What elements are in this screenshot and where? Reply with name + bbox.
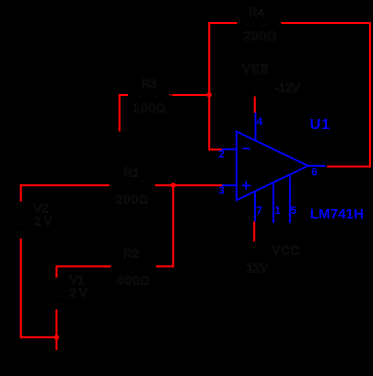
- svg-text:200Ω: 200Ω: [116, 193, 149, 207]
- pin 1 stub: [272, 183, 274, 223]
- svg-text:R3: R3: [141, 77, 157, 91]
- wire: bottom row V2 to V1 junction: [20, 336, 57, 338]
- wire: R2 left lead to V1 top: [57, 266, 112, 277]
- wire: pin3 node riser down to R2 right lead: [156, 185, 173, 266]
- resistor R1 body: [111, 180, 153, 189]
- source V2 body (battery symbol, invisible): [10, 202, 31, 239]
- svg-text:200Ω: 200Ω: [244, 29, 277, 43]
- wire: V2 top lead vertical: [20, 184, 22, 201]
- svg-text:12V: 12V: [247, 261, 268, 275]
- ground under R3: [110, 132, 129, 149]
- pin 2 stub: [222, 148, 237, 150]
- op-amp U1 LM741H: [222, 113, 326, 224]
- svg-text:V1: V1: [70, 273, 85, 287]
- wire: V2 bottom lead down to bottom row: [20, 239, 22, 338]
- svg-text:R4: R4: [249, 5, 265, 19]
- svg-text:400Ω: 400Ω: [117, 273, 150, 287]
- resistor R2 body: [112, 261, 154, 270]
- wire: V1 bottom lead down through junction to ground: [56, 309, 58, 350]
- wire: VCC supply from pin7: [253, 222, 255, 242]
- pin 4 stub: [255, 113, 257, 141]
- wire: R1 row from V2 top corner to R1 left terminal: [21, 184, 110, 186]
- svg-text:6: 6: [311, 167, 317, 179]
- svg-text:R1: R1: [124, 166, 140, 180]
- svg-text:5: 5: [291, 205, 297, 217]
- svg-text:4: 4: [257, 116, 264, 128]
- op-amp triangle body: [237, 132, 309, 201]
- node: pin2 junction dot: [207, 92, 212, 97]
- pin 3 stub: [222, 184, 237, 186]
- minus sign at inverting input: [243, 148, 251, 150]
- svg-text:1: 1: [275, 205, 281, 217]
- pin 6 stub: [308, 165, 326, 167]
- ground under V1/V2: [47, 350, 66, 364]
- svg-text:2 V: 2 V: [69, 286, 87, 300]
- power VEE symbol (invisible): [247, 86, 262, 96]
- svg-text:-12V: -12V: [275, 81, 300, 95]
- resistor R3 body: [130, 90, 172, 99]
- node: V1/V2 ground junction dot: [54, 335, 59, 340]
- source V1 body (battery symbol, invisible): [46, 278, 67, 310]
- wire: R4 row left vertical (pin2 node up to feedback row): [208, 23, 210, 95]
- wire: R3 right lead to pin2 node: [170, 94, 210, 96]
- svg-text:R2: R2: [124, 247, 140, 261]
- node: pin3 junction dot: [171, 183, 176, 188]
- wire: right vertical (feedback down to output row): [369, 22, 371, 167]
- wire: R4 right terminal to top-right corner: [281, 22, 370, 24]
- svg-text:100Ω: 100Ω: [133, 101, 166, 115]
- power VCC symbol (invisible): [247, 242, 262, 253]
- plus sign at non-inverting input: [242, 181, 251, 190]
- svg-text:2 V: 2 V: [34, 215, 52, 229]
- svg-text:VEE: VEE: [242, 62, 269, 76]
- svg-text:V2: V2: [34, 202, 49, 216]
- resistor R4 body (black, invisible on black): [239, 18, 281, 27]
- wire: pin2 node down and right to op-amp inverting input: [209, 95, 222, 150]
- svg-text:U1: U1: [310, 116, 331, 133]
- wire: R3 left lead corner down to ground: [120, 95, 129, 132]
- svg-text:VCC: VCC: [272, 244, 300, 258]
- wire: VEE supply to pin4: [254, 96, 256, 113]
- svg-text:LM741H: LM741H: [310, 206, 364, 222]
- wire: R1 right terminal to pin3 stub: [155, 184, 222, 186]
- wire: output row red segment: [327, 166, 371, 168]
- pin 5 stub: [289, 175, 291, 223]
- wire: top row to R4 left terminal: [208, 22, 237, 24]
- pin 7 stub: [254, 191, 256, 221]
- svg-text:3: 3: [219, 185, 225, 197]
- svg-text:7: 7: [256, 205, 262, 217]
- svg-text:2: 2: [219, 149, 225, 161]
